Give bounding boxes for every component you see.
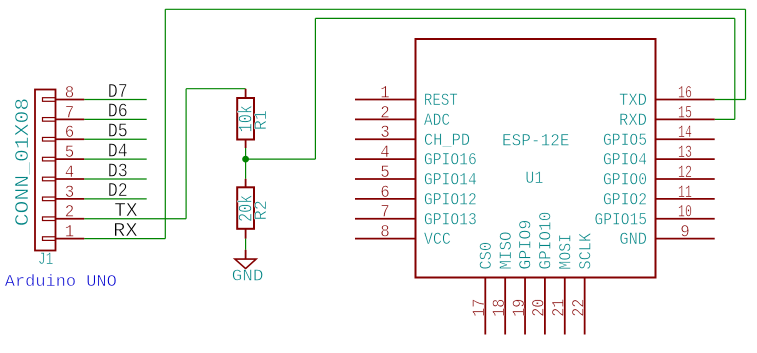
svg-text:ADC: ADC	[424, 111, 450, 131]
svg-text:18: 18	[490, 299, 510, 317]
svg-text:7: 7	[65, 103, 75, 123]
svg-text:GPIO16: GPIO16	[424, 151, 477, 171]
svg-text:3: 3	[380, 123, 390, 143]
svg-text:20: 20	[530, 299, 550, 317]
svg-text:2: 2	[380, 103, 390, 123]
svg-text:TXD: TXD	[619, 91, 647, 111]
svg-text:GND: GND	[232, 268, 264, 287]
svg-text:D7: D7	[108, 81, 128, 103]
svg-text:14: 14	[678, 123, 692, 143]
svg-text:11: 11	[678, 183, 692, 203]
svg-text:8: 8	[65, 84, 75, 104]
svg-text:D4: D4	[108, 140, 128, 162]
svg-text:J1: J1	[38, 250, 53, 270]
svg-text:22: 22	[569, 299, 589, 317]
svg-text:CONN_01X08: CONN_01X08	[12, 98, 34, 227]
svg-text:MISO: MISO	[497, 231, 517, 269]
svg-text:7: 7	[380, 203, 390, 223]
svg-text:ESP-12E: ESP-12E	[502, 131, 570, 151]
svg-text:TX: TX	[114, 200, 138, 222]
svg-text:16: 16	[678, 84, 692, 104]
svg-text:6: 6	[65, 123, 75, 143]
svg-text:12: 12	[678, 163, 692, 183]
svg-text:CS0: CS0	[477, 242, 497, 270]
svg-text:D2: D2	[108, 180, 128, 202]
svg-text:U1: U1	[525, 169, 543, 189]
svg-text:19: 19	[510, 299, 530, 317]
svg-text:GND: GND	[619, 230, 647, 250]
svg-text:GPIO4: GPIO4	[603, 151, 647, 171]
svg-text:D6: D6	[108, 101, 128, 123]
svg-text:9: 9	[680, 223, 690, 243]
svg-text:MOSI: MOSI	[556, 234, 576, 270]
svg-text:4: 4	[380, 143, 390, 163]
svg-text:D5: D5	[108, 121, 128, 143]
svg-text:17: 17	[470, 299, 490, 317]
svg-text:SCLK: SCLK	[576, 233, 596, 270]
svg-text:Arduino UNO: Arduino UNO	[5, 273, 117, 292]
svg-text:1: 1	[380, 84, 390, 104]
svg-text:REST: REST	[424, 91, 458, 111]
svg-text:GPIO10: GPIO10	[537, 212, 557, 270]
svg-text:CH_PD: CH_PD	[424, 131, 470, 151]
svg-text:10: 10	[678, 203, 692, 223]
svg-text:GPIO13: GPIO13	[424, 210, 477, 230]
svg-text:VCC: VCC	[424, 230, 451, 250]
svg-text:R1: R1	[252, 110, 272, 130]
svg-text:5: 5	[380, 163, 390, 183]
svg-text:15: 15	[678, 103, 692, 123]
svg-text:R2: R2	[252, 200, 272, 220]
svg-text:8: 8	[380, 223, 390, 243]
svg-text:D3: D3	[108, 160, 128, 182]
svg-text:GPIO2: GPIO2	[603, 190, 647, 210]
svg-text:GPIO15: GPIO15	[595, 210, 648, 230]
svg-text:5: 5	[65, 143, 75, 163]
svg-text:GPIO5: GPIO5	[603, 131, 647, 151]
svg-text:4: 4	[65, 163, 75, 183]
svg-text:GPIO14: GPIO14	[424, 171, 477, 191]
svg-text:GPIO12: GPIO12	[424, 190, 477, 210]
svg-text:13: 13	[678, 143, 692, 163]
svg-text:GPIO0: GPIO0	[603, 171, 647, 191]
svg-text:RX: RX	[113, 220, 138, 242]
svg-text:6: 6	[380, 183, 390, 203]
svg-text:1: 1	[65, 223, 75, 243]
svg-text:RXD: RXD	[619, 111, 647, 131]
svg-text:GPIO9: GPIO9	[517, 220, 537, 270]
svg-text:3: 3	[65, 183, 75, 203]
svg-text:2: 2	[65, 203, 75, 223]
svg-text:21: 21	[550, 299, 570, 317]
